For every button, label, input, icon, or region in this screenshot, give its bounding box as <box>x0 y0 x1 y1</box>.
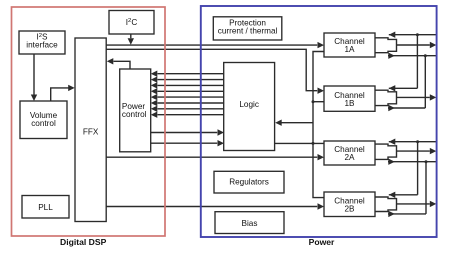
wire PWM bus 2 FFX to Channel 1B <box>106 49 317 90</box>
svg-text:current / thermal: current / thermal <box>218 26 278 35</box>
wire Logic to Power control line 3 <box>158 84 225 86</box>
wire I2C drop to PWM bus <box>130 34 132 38</box>
block FFX <box>75 38 106 222</box>
wire rail 1A-1B low-side <box>424 56 426 108</box>
wire Logic to Power control line 5 <box>158 96 225 98</box>
junction rail3 top <box>416 140 419 143</box>
block Channel 2A <box>324 141 375 165</box>
arrowhead 1B output <box>430 94 437 100</box>
arrowhead into Channel 2B <box>318 203 325 209</box>
wire Logic to Power control line 4 <box>158 90 225 92</box>
arrowhead 2B output <box>430 201 437 207</box>
svg-text:PLL: PLL <box>38 203 53 212</box>
arrowhead into Power control 7 <box>151 106 158 112</box>
wire Logic to Power control line 8 <box>158 114 225 116</box>
svg-text:control: control <box>31 119 56 128</box>
junction rail2 top <box>424 54 427 57</box>
svg-text:Logic: Logic <box>239 100 259 109</box>
block Logic <box>224 63 275 151</box>
svg-text:2B: 2B <box>344 204 355 213</box>
block PLL <box>22 196 69 219</box>
region Power boundary <box>201 6 437 237</box>
wire Channel 1A feedback net vertical <box>313 52 324 198</box>
wire I2S to Volume control <box>33 54 35 95</box>
arrowhead into Power control 1 <box>151 71 158 77</box>
block Regulators <box>214 171 284 193</box>
arrowhead 1A output <box>430 42 437 48</box>
wire 2A output line <box>397 150 430 152</box>
arrowhead into Volume control <box>31 95 37 102</box>
svg-text:interface: interface <box>26 41 58 50</box>
wire rail 1A-1B feedback <box>416 35 418 89</box>
power stage 2B gate bracket <box>375 197 397 212</box>
wire 1B feedback line <box>389 87 418 89</box>
region Digital DSP boundary <box>12 7 166 236</box>
wire 2B output line <box>397 203 430 205</box>
wire 1A output line <box>397 44 430 46</box>
arrowhead into Power control 2 <box>151 76 158 82</box>
block I2C <box>109 11 154 35</box>
wire 2A feedback line <box>389 141 437 143</box>
arrowhead 1B low-side <box>388 105 395 111</box>
svg-text:I2C: I2C <box>126 18 138 27</box>
arrowhead into Channel 1A <box>318 42 325 48</box>
wire FFX to Channel 2A <box>106 156 317 158</box>
svg-text:Digital DSP: Digital DSP <box>60 237 107 247</box>
block Channel 1A <box>324 33 375 57</box>
wire Power control to Logic a <box>151 132 217 134</box>
arrowhead into Logic a <box>218 129 225 135</box>
wire 2B feedback line <box>389 194 418 196</box>
wire Power control to Logic b <box>151 142 217 144</box>
wire Logic to Power control line 2 <box>158 79 225 81</box>
wire Volume control to FFX <box>51 88 69 101</box>
arrowhead 1A feedback <box>389 32 396 38</box>
svg-text:Bias: Bias <box>242 219 258 228</box>
wire 2B low-side line <box>388 213 426 215</box>
arrowhead 2A low-side <box>388 159 395 165</box>
wire 1B output line <box>397 96 430 98</box>
arrowhead I2C into bus <box>128 38 134 45</box>
wire Logic to Power control line 6 <box>158 102 225 104</box>
arrowhead into Channel 2A <box>318 154 325 160</box>
arrowhead into Power control 8 <box>151 112 158 118</box>
wire Logic to Power control line 1 <box>158 73 225 75</box>
svg-text:Power: Power <box>309 237 335 247</box>
arrowhead into Channel 1B <box>318 88 325 94</box>
arrowhead into Power control 3 <box>151 82 158 88</box>
svg-text:1B: 1B <box>344 99 355 108</box>
wire net branch to Channel 1B <box>313 101 324 103</box>
svg-text:2A: 2A <box>344 153 355 162</box>
junction net at Channel 1B branch <box>312 100 315 103</box>
wire net branch to Logic <box>282 122 314 124</box>
arrowhead into FFX right <box>107 58 114 64</box>
junction rail1 top <box>416 33 419 36</box>
arrowhead 2A output <box>430 148 437 154</box>
wire FFX to Channel 2B <box>106 206 317 208</box>
wire 1B low-side line <box>388 107 425 109</box>
arrowhead into FFX left <box>68 85 75 91</box>
wire Logic to Power control line 7 <box>158 108 225 110</box>
block Volume control <box>20 101 67 139</box>
block Channel 1B <box>324 86 375 111</box>
power stage 1A gate bracket <box>375 38 397 53</box>
arrowhead into Power control 6 <box>151 100 158 106</box>
wire Logic to Channel 2A <box>275 142 324 144</box>
wire 2A low-side line <box>388 161 436 163</box>
block Channel 2B <box>324 192 375 217</box>
wire 1A low-side line <box>388 55 436 57</box>
arrowhead into Power control 5 <box>151 94 158 100</box>
wire PWM bus 1 FFX to Channel 1A <box>106 44 317 46</box>
svg-text:1A: 1A <box>344 45 355 54</box>
block Power control <box>120 69 151 152</box>
arrowhead 2B low-side <box>388 211 395 217</box>
junction rail4 top <box>425 160 428 163</box>
arrowhead 2A feedback <box>389 139 396 145</box>
arrowhead into Power control 4 <box>151 88 158 94</box>
svg-text:control: control <box>122 110 147 119</box>
wire Power control to FFX <box>114 61 131 69</box>
arrowhead into Logic right <box>275 120 282 126</box>
junction net crosses Logic-2A line <box>312 142 315 145</box>
wire rail 2A-2B low-side <box>425 162 427 214</box>
block Bias <box>215 212 284 234</box>
block I2S interface <box>19 31 65 54</box>
power stage 1B gate bracket <box>375 90 397 105</box>
arrowhead 2B feedback <box>389 192 396 198</box>
svg-text:Regulators: Regulators <box>229 178 269 187</box>
svg-text:FFX: FFX <box>83 127 99 136</box>
arrowhead into Logic b <box>218 140 225 146</box>
power stage 2A gate bracket <box>375 144 397 159</box>
arrowhead 1B feedback <box>389 85 396 91</box>
wire 1A feedback line <box>389 34 437 36</box>
block Protection current/thermal <box>213 17 281 40</box>
arrowhead 1A low-side <box>388 53 395 59</box>
wire rail 2A-2B feedback <box>417 142 419 195</box>
